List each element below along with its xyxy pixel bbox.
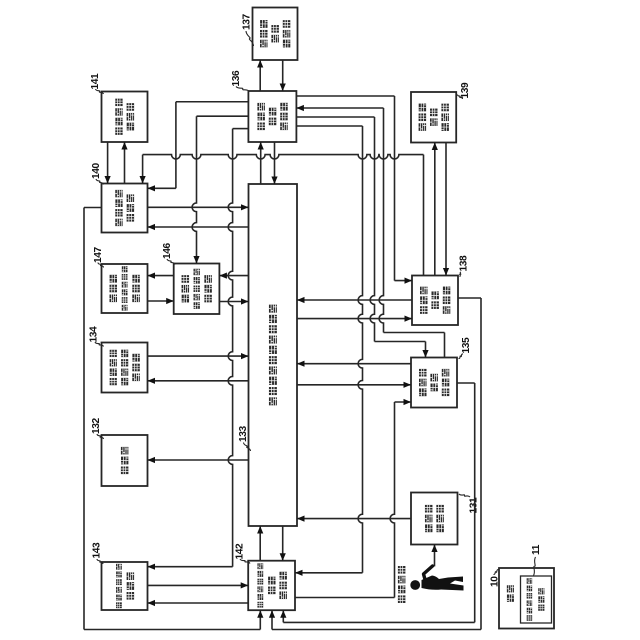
wire 136 to 140	[176, 101, 249, 103]
svg-text:147: 147	[93, 246, 104, 263]
wire 138 to 133	[297, 299, 412, 301]
wire 131 to 133	[297, 518, 411, 520]
wire 136 to 146	[197, 115, 249, 117]
box 10 ペン	[499, 568, 554, 629]
box 138 文字列変換制御部	[412, 276, 458, 326]
person icon	[410, 580, 420, 590]
wire 133 to 138	[297, 318, 412, 320]
box 143 操作コマンド定義部	[102, 562, 148, 610]
wire 139 to 138	[445, 143, 447, 276]
wire 142 to 133	[259, 526, 261, 561]
svg-text:137: 137	[242, 13, 253, 30]
box 134 候補表示タイマー制御部	[102, 343, 148, 393]
svg-text:134: 134	[89, 326, 100, 343]
wire 134 to 133	[148, 355, 249, 357]
box 11 ペンイベント送信部	[521, 576, 552, 623]
svg-text:139: 139	[460, 82, 471, 99]
box 136 手書き認識制御部	[248, 91, 296, 142]
svg-text:132: 132	[91, 417, 102, 434]
wire 136 to 142	[296, 125, 362, 127]
wire 146 to 133	[219, 301, 248, 303]
box 140 予測変換制御部	[102, 184, 148, 233]
box 132 表示部	[102, 435, 148, 486]
wire 135 to 136	[444, 333, 446, 358]
box 141 予測変換辞書部	[102, 92, 148, 143]
box 147 手書きサインデータ保存部	[102, 264, 148, 313]
wire 136 to 138	[296, 95, 394, 97]
pen input label ペン入力	[398, 595, 406, 603]
wire 133 to 134	[148, 380, 249, 382]
wire 146 to 147	[148, 275, 174, 277]
wire 136 to 143	[233, 128, 249, 130]
wire 133 to 135	[297, 384, 411, 386]
wire 133 to 136	[260, 142, 262, 184]
svg-text:146: 146	[162, 242, 173, 259]
svg-text:135: 135	[461, 337, 472, 354]
wire 140 to 133	[148, 206, 249, 208]
wire 143 to 142	[148, 584, 249, 586]
wire 140 to 141	[124, 142, 126, 184]
wire 137 to 136	[282, 60, 284, 91]
svg-text:138: 138	[459, 255, 470, 272]
wire 135 to 142 long route	[457, 382, 475, 384]
svg-text:142: 142	[235, 543, 246, 560]
box 133 手書き入力表示制御部	[249, 184, 298, 526]
wire 138 to 142 long route	[458, 297, 481, 299]
wire 133 to 140	[148, 226, 249, 228]
box 146 手書きサイン認証制御部	[174, 264, 220, 315]
wire 142 to 135	[295, 597, 395, 599]
svg-text:136: 136	[231, 70, 242, 87]
wire 133 to 132	[148, 459, 249, 461]
wire 138 to 140 bus	[423, 155, 425, 276]
svg-text:140: 140	[91, 162, 102, 179]
wire 141 to 140	[107, 142, 109, 184]
svg-text:133: 133	[238, 425, 249, 442]
wire 136 to 133	[274, 142, 276, 184]
wire 133 to 146	[219, 275, 248, 277]
wire 142 to 143	[148, 602, 249, 604]
wire pen input to 131	[434, 545, 436, 567]
wire 136 to 137	[259, 60, 261, 91]
wire 147 to 146	[148, 300, 174, 302]
wire 140 to 142 long route	[84, 207, 102, 209]
box 139 文字列変換辞書部	[411, 92, 456, 143]
svg-text:143: 143	[92, 542, 103, 559]
box 137 手書き認識辞書部	[253, 8, 298, 61]
wire 136 to 135	[296, 116, 374, 118]
svg-text:11: 11	[531, 544, 542, 555]
box 135 手書き入力保存部	[411, 358, 457, 408]
box 131 手書き入力部	[411, 493, 458, 545]
svg-text:10: 10	[490, 576, 501, 587]
wire 138 to 139	[434, 143, 436, 276]
wire 133 to 142	[282, 526, 284, 561]
svg-text:141: 141	[90, 73, 101, 90]
box 142 操作コマンド認識制御部	[248, 561, 295, 611]
wire 135 to 133	[297, 363, 411, 365]
